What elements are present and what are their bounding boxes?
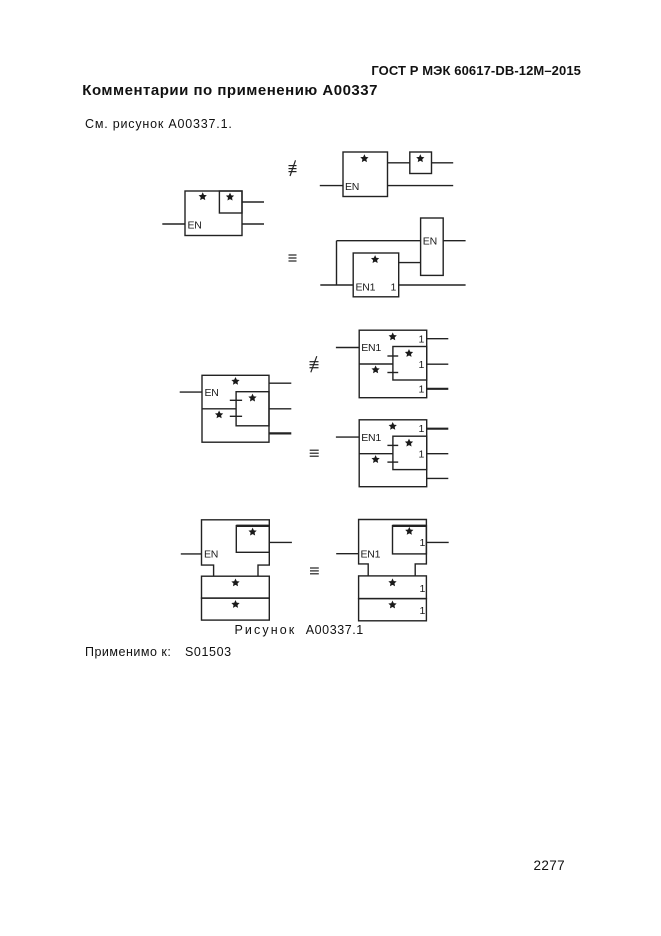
G1 bottom-right: input wire bbox=[320, 284, 353, 286]
G3 left: embedded element box bbox=[236, 526, 269, 553]
svg-text:1: 1 bbox=[420, 537, 426, 549]
G3 left: star label array 2 bbox=[232, 601, 238, 607]
svg-text:EN1: EN1 bbox=[356, 282, 376, 294]
G3 right: array element box 1 bbox=[359, 576, 427, 599]
G1 bottom-right: pin label 1 bbox=[391, 282, 397, 294]
svg-text:EN: EN bbox=[205, 387, 219, 399]
relation equivalent (group 2) bbox=[310, 450, 319, 456]
svg-text:1: 1 bbox=[419, 359, 425, 371]
G2 bottom-right: internal connection tick lower bbox=[387, 461, 398, 463]
G2 top-right: pin label 1 bottom bbox=[419, 384, 425, 396]
G1 bottom-right: label EN (control box) bbox=[423, 236, 437, 248]
G2 bottom-right: internal boundary line bbox=[359, 453, 393, 455]
relation not-equivalent (group 1) bbox=[289, 160, 297, 176]
svg-text:1: 1 bbox=[420, 605, 426, 617]
G2 top-right: output wire bottom bbox=[427, 388, 449, 390]
G2 left: internal connection tick upper bbox=[230, 399, 242, 401]
G3 left: label EN bbox=[204, 549, 218, 561]
G1 bottom-right: EN1 output wire bbox=[399, 284, 466, 286]
G3 right: pin label 1 array 1 bbox=[420, 583, 426, 595]
svg-text:1: 1 bbox=[420, 583, 426, 595]
G1 top-right: lower output wire bbox=[388, 185, 454, 187]
G2 top-right: embedded element box bbox=[393, 347, 427, 381]
G3 right: label EN1 bbox=[361, 549, 381, 561]
G2 left: embedded element box bbox=[236, 392, 269, 426]
G1 left: output wire (inner box) bbox=[242, 201, 264, 203]
G1 top-right: star label (main) bbox=[361, 155, 367, 161]
G2 left: outline main box bbox=[202, 375, 269, 442]
G1 top-right: input wire EN bbox=[320, 185, 343, 187]
G2 bottom-right: pin label 1 middle bbox=[419, 449, 425, 461]
G1 bottom-right: EN box output wire bbox=[443, 240, 465, 242]
svg-text:EN1: EN1 bbox=[361, 549, 381, 561]
G2 top-right: output wire top bbox=[427, 338, 449, 340]
G1 bottom-right: EN1 box bbox=[353, 253, 399, 297]
svg-text:EN: EN bbox=[345, 181, 359, 193]
G2 left: star label lower bbox=[216, 411, 222, 417]
svg-text:EN: EN bbox=[188, 220, 202, 232]
G1 left: label EN bbox=[188, 220, 202, 232]
G2 bottom-right: embedded element box bbox=[393, 436, 427, 469]
svg-text:1: 1 bbox=[391, 282, 397, 294]
G2 top-right: star label top bbox=[389, 333, 395, 339]
G1 top-right: outline main box bbox=[343, 152, 388, 197]
G2 bottom-right: outline main box bbox=[359, 420, 427, 487]
page number bbox=[534, 858, 565, 873]
G1 left: star label (main) bbox=[199, 193, 205, 199]
figure caption bbox=[235, 623, 297, 637]
G1 top-right: output wire bbox=[432, 162, 454, 164]
G3 right: pin label 1 array 2 bbox=[420, 605, 426, 617]
G1 bottom-right: star label bbox=[372, 256, 378, 262]
G1 left: input wire EN bbox=[162, 223, 185, 225]
G2 top-right: star label lower bbox=[372, 366, 378, 372]
G2 left: output wire bottom bbox=[269, 432, 291, 434]
G1 top-right: star label (cascade) bbox=[417, 155, 423, 161]
applicable-to value S01503 bbox=[185, 645, 232, 659]
G2 bottom-right: output wire bottom bbox=[427, 477, 449, 479]
G2 bottom-right: star label lower bbox=[372, 456, 378, 462]
G3 left: input wire EN bbox=[181, 553, 202, 555]
relation equivalent (group 3) bbox=[310, 568, 319, 574]
G2 bottom-right: label EN1 bbox=[361, 432, 381, 444]
G2 bottom-right: output wire top bbox=[427, 428, 449, 430]
G3 right: star label embedded bbox=[406, 528, 412, 534]
G3 right: common control block outline bbox=[359, 520, 427, 576]
G3 right: star label array 1 bbox=[389, 579, 395, 585]
G1 top-right: cascade box bbox=[410, 152, 432, 174]
see figure note bbox=[85, 117, 233, 131]
G3 right: input wire EN1 bbox=[336, 553, 358, 555]
svg-text:EN1: EN1 bbox=[361, 342, 381, 354]
G2 top-right: internal connection tick lower bbox=[387, 372, 398, 374]
G2 top-right: internal connection tick upper bbox=[387, 355, 398, 357]
svg-text:1: 1 bbox=[419, 423, 425, 435]
G3 right: array element box 2 bbox=[359, 599, 427, 621]
G2 top-right: internal boundary line bbox=[359, 363, 393, 365]
G1 bottom-right: branch wire horizontal to EN box bbox=[337, 240, 421, 242]
G3 right: output wire bbox=[426, 541, 448, 543]
G3 left: array element box 2 bbox=[202, 598, 270, 620]
G1 top-right: label EN bbox=[345, 181, 359, 193]
G2 bottom-right: star label top bbox=[389, 423, 395, 429]
G3 left: array element box 1 bbox=[202, 576, 270, 598]
G1 bottom-right: label EN1 bbox=[356, 282, 376, 294]
G2 left: input wire EN bbox=[180, 391, 202, 393]
G2 top-right: outline main box bbox=[359, 330, 427, 398]
relation not-equivalent (group 2) bbox=[310, 356, 319, 372]
G1 left: star label (inner) bbox=[227, 194, 233, 200]
G2 left: label EN bbox=[205, 387, 219, 399]
G2 bottom-right: internal connection tick upper bbox=[387, 444, 398, 446]
svg-text:EN: EN bbox=[204, 549, 218, 561]
G3 left: star label embedded bbox=[249, 529, 255, 535]
header: standard designation bbox=[0, 63, 581, 78]
G3 left: output wire bbox=[269, 541, 292, 543]
G2 top-right: label EN1 bbox=[361, 342, 381, 354]
G3 right: pin label 1 embedded bbox=[420, 537, 426, 549]
G2 bottom-right: input wire EN1 bbox=[336, 436, 359, 438]
G2 top-right: pin label 1 middle bbox=[419, 359, 425, 371]
G3 left: star label array 1 bbox=[232, 579, 238, 585]
G2 top-right: pin label 1 top bbox=[419, 334, 425, 346]
G2 left: output wire middle bbox=[269, 408, 291, 410]
G2 bottom-right: star label embedded bbox=[406, 440, 412, 446]
svg-text:1: 1 bbox=[419, 449, 425, 461]
G1 bottom-right: branch wire vertical bbox=[336, 241, 338, 285]
figure caption number bbox=[306, 623, 364, 637]
G2 top-right: input wire EN1 bbox=[336, 347, 359, 349]
svg-text:EN: EN bbox=[423, 236, 437, 248]
G2 top-right: star label embedded bbox=[406, 350, 412, 356]
G1 top-right: wire to cascade box bbox=[388, 162, 410, 164]
G2 left: star label embedded bbox=[249, 395, 255, 401]
G1 left: output wire (main box) bbox=[242, 223, 264, 225]
G1 bottom-right: wire EN1 to EN box bbox=[399, 262, 421, 264]
G2 left: internal connection tick lower bbox=[230, 415, 242, 417]
G3 right: star label array 2 bbox=[389, 602, 395, 608]
G2 left: output wire top bbox=[269, 382, 291, 384]
G1 left: inner output element box bbox=[219, 191, 242, 213]
G2 top-right: output wire middle bbox=[427, 363, 449, 365]
relation equivalent (group 1) bbox=[289, 255, 297, 261]
G2 left: internal boundary line bbox=[202, 408, 236, 410]
G3 left: common control block outline bbox=[202, 520, 270, 576]
G2 bottom-right: output wire middle bbox=[427, 453, 449, 455]
svg-text:EN1: EN1 bbox=[361, 432, 381, 444]
title bbox=[82, 82, 378, 99]
G1 left: outline U1 bbox=[185, 191, 242, 236]
G1 bottom-right: EN control box bbox=[421, 218, 444, 275]
G3 right: embedded element box bbox=[393, 526, 427, 554]
G2 bottom-right: pin label 1 top bbox=[419, 423, 425, 435]
applicable-to note bbox=[85, 645, 171, 659]
svg-text:1: 1 bbox=[419, 334, 425, 346]
svg-text:1: 1 bbox=[419, 384, 425, 396]
G2 left: star label top bbox=[232, 378, 238, 384]
